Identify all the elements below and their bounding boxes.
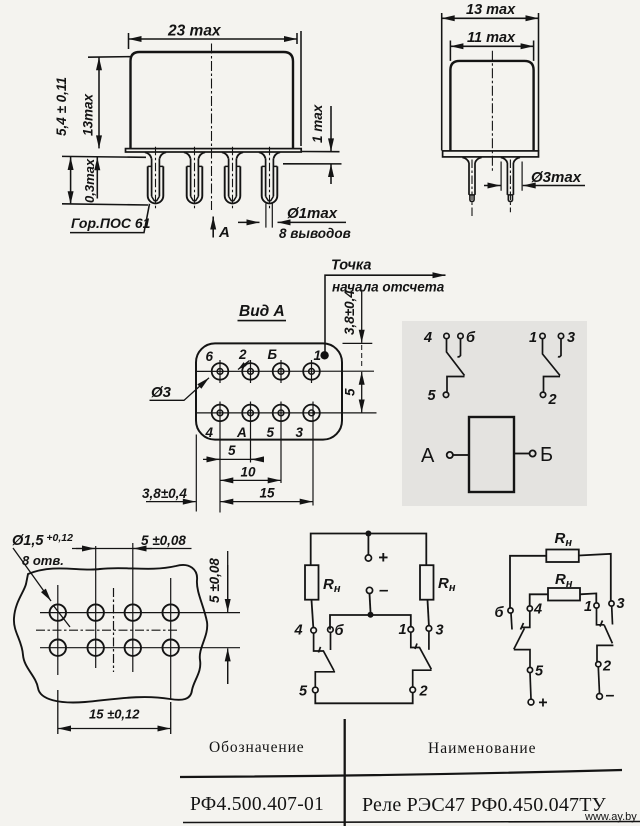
svg-text:23 max: 23 max — [167, 23, 222, 40]
switch S3 blade — [514, 611, 530, 667]
dim 5 cols pcb line — [72, 548, 192, 550]
hole r2c2 — [88, 640, 104, 656]
svg-text:5: 5 — [267, 425, 275, 440]
switch S1 tick — [319, 647, 321, 653]
wire Rn3 right lead — [579, 554, 611, 601]
terminal plus R — [528, 699, 534, 705]
svg-text:Точка: Точка — [331, 258, 371, 274]
table vertical divider — [344, 719, 346, 826]
leader phi1,5 tail — [53, 605, 70, 627]
svg-text:15: 15 — [260, 486, 276, 501]
svg-text:А: А — [236, 425, 247, 440]
switch S3 stub b — [511, 613, 512, 629]
terminal minus R — [597, 694, 603, 700]
svg-text:2: 2 — [548, 392, 557, 408]
leader tochka line — [325, 275, 446, 352]
dim 5 rows pcb upper arrow — [227, 565, 229, 612]
hole r1c4 — [163, 604, 179, 620]
coil terminal B — [530, 450, 536, 456]
svg-text:Б: Б — [540, 444, 553, 466]
row line top holes — [40, 612, 240, 614]
board torn outline — [14, 565, 207, 703]
leader Gor.POS 61 — [70, 204, 150, 233]
coil terminal A — [447, 452, 453, 458]
column line h2 — [95, 546, 97, 668]
contact K2: fixed stub 3 — [558, 339, 561, 357]
contact K1: pin 5 terminal — [443, 392, 448, 397]
svg-text:Наименование: Наименование — [428, 740, 537, 757]
svg-text:0,3max: 0,3max — [82, 158, 97, 203]
hole r1c2 — [88, 604, 104, 620]
contact K1: pin b terminal — [458, 333, 463, 338]
switch S4 tick — [600, 621, 603, 627]
row line bottom — [197, 412, 377, 414]
switch S2 tick — [415, 644, 417, 650]
dim 15 pcb — [58, 728, 171, 730]
dim 3.8 top arrow — [361, 290, 363, 343]
pin 1 terminal — [408, 627, 414, 633]
pin 4 hole — [212, 405, 229, 422]
column line h3 — [132, 543, 134, 672]
dim 23max line — [129, 38, 298, 40]
leg 2 front — [184, 147, 205, 209]
wire R2 to pin3 — [428, 600, 429, 626]
svg-text:–: – — [379, 580, 389, 599]
contact K2: pin 3 terminal — [558, 333, 563, 338]
svg-text:1 max: 1 max — [310, 104, 325, 143]
row line top — [197, 370, 375, 372]
switch S1 blade — [314, 633, 336, 687]
coil lead B — [514, 453, 529, 455]
svg-text:Реле РЭС47 РФ0.450.047ТУ: Реле РЭС47 РФ0.450.047ТУ — [362, 794, 607, 816]
dim 5.4 line — [70, 157, 72, 204]
pin column ext lines bottom row — [220, 402, 313, 513]
leg left side — [462, 157, 481, 217]
wire 5 to plus — [530, 673, 531, 699]
leg4 pin extension lines — [266, 204, 272, 228]
ext line body top left — [88, 56, 132, 59]
hole r1c3 — [125, 604, 141, 620]
contact K2: pin 2 terminal — [540, 392, 545, 397]
dim 15 line — [220, 501, 312, 503]
view arrow A — [212, 217, 214, 238]
svg-text:3,8±0,4: 3,8±0,4 — [342, 290, 357, 335]
svg-text:РФ4.500.407-01: РФ4.500.407-01 — [190, 794, 324, 815]
svg-text:5,4 ± 0,11: 5,4 ± 0,11 — [54, 77, 69, 136]
hole r2c3 — [125, 640, 141, 656]
ext lines 23max — [129, 31, 302, 146]
wire Rn4 left lead — [530, 594, 548, 606]
dim 13max line — [98, 57, 100, 148]
relay body side — [450, 61, 533, 151]
svg-text:2: 2 — [419, 684, 428, 700]
hole r2c4 — [163, 640, 179, 656]
pin 2 terminal R — [596, 662, 601, 667]
svg-text:6: 6 — [206, 349, 214, 364]
svg-text:5: 5 — [299, 684, 308, 700]
title underline — [238, 320, 287, 322]
dim 3.8 bottom line — [146, 501, 196, 503]
table bottom line — [183, 822, 640, 823]
pin b terminal — [328, 627, 334, 633]
switch S4 blade — [597, 608, 614, 661]
dim 0.3max line — [96, 157, 98, 198]
ext line leg tips left — [62, 204, 148, 205]
column line h1 — [57, 585, 59, 675]
dim 1max upper arrow — [330, 106, 332, 151]
svg-text:2: 2 — [238, 347, 247, 362]
svg-text:Ø3: Ø3 — [151, 384, 172, 401]
pin b terminal R — [508, 608, 513, 613]
dim 5 pcb left arrow — [76, 548, 95, 550]
pin 2 terminal — [410, 687, 416, 693]
svg-text:3: 3 — [436, 623, 444, 639]
svg-text:5: 5 — [228, 443, 236, 458]
svg-text:+: + — [538, 695, 547, 712]
dim 5 cols left arrow — [206, 458, 220, 460]
dim phi1 right segment — [278, 221, 347, 223]
dim 13max side — [442, 17, 539, 19]
svg-text:+: + — [378, 548, 388, 567]
svg-text:13max: 13max — [81, 93, 96, 136]
pin 4 terminal R — [527, 606, 532, 611]
switch S1 stub b — [330, 632, 332, 650]
wire top rail — [311, 534, 427, 566]
svg-text:5: 5 — [535, 664, 544, 680]
datum point dot — [320, 351, 328, 359]
pin 3 terminal R — [609, 601, 614, 606]
dim 10 line — [220, 479, 280, 481]
svg-text:5 ±0,08: 5 ±0,08 — [207, 558, 222, 603]
svg-text:А: А — [421, 445, 435, 467]
pin 1 hole — [303, 363, 320, 380]
leader phi3 — [150, 378, 210, 401]
wire R1 to pin4 — [312, 600, 314, 628]
ext line plate bottom right — [302, 151, 340, 153]
pin column ticks top row — [220, 360, 312, 383]
svg-text:б: б — [466, 330, 476, 346]
ext lines phi3 — [501, 162, 522, 191]
pin 6 hole — [212, 363, 229, 380]
ext lines 13max side — [442, 13, 539, 151]
svg-text:1: 1 — [314, 348, 322, 363]
wire plus stub — [367, 534, 369, 556]
junction top — [365, 531, 371, 537]
dim 5 pcb right arrow — [134, 548, 153, 550]
leg 4 front — [259, 147, 280, 209]
center axis dash-dot — [211, 44, 213, 211]
svg-text:5: 5 — [428, 388, 437, 404]
pin 5 terminal — [313, 687, 319, 693]
svg-text:Ø1max: Ø1max — [287, 205, 338, 222]
leader label2 arrow — [238, 361, 250, 370]
svg-text:б: б — [335, 623, 345, 639]
ext row lines right — [227, 551, 229, 684]
dim 5 cols right arrow — [251, 458, 264, 460]
row line bottom holes — [40, 647, 240, 649]
dim 5 rows — [361, 372, 363, 413]
svg-text:www.ay.by: www.ay.by — [584, 811, 637, 823]
svg-text:1: 1 — [529, 330, 537, 346]
ext line collar bottom left — [62, 155, 146, 158]
svg-text:5 ±0,08: 5 ±0,08 — [141, 533, 186, 548]
switch S2 stub 3 — [428, 631, 430, 650]
svg-text:4: 4 — [533, 602, 542, 618]
ext sides to 11max — [450, 41, 533, 61]
svg-text:б: б — [495, 605, 505, 621]
leg 3 front — [222, 147, 243, 209]
pin 2 hole — [242, 363, 259, 380]
relay body front — [131, 52, 294, 149]
wire mid rail — [330, 615, 411, 630]
resistor Rn3 — [546, 550, 579, 563]
resistor Rn2 — [420, 565, 434, 600]
center axis vertical dash-dot — [113, 588, 115, 672]
svg-text:Вид А: Вид А — [239, 303, 285, 320]
header underline — [180, 770, 622, 777]
hole r2c1 — [50, 640, 66, 656]
dim 1max lower arrow — [330, 164, 332, 184]
switch S2 blade — [411, 632, 432, 687]
contact K2: blade — [543, 339, 561, 392]
coil lead A — [453, 454, 469, 456]
junction mid — [368, 612, 374, 618]
column line h4 — [170, 578, 172, 700]
svg-text:3: 3 — [567, 330, 575, 346]
svg-text:1: 1 — [399, 622, 407, 638]
dim phi3 left arrow — [484, 185, 501, 187]
terminal minus — [366, 587, 372, 593]
switch S4 stub 3 — [611, 606, 614, 624]
contact K1: fixed stub b — [458, 339, 461, 357]
svg-text:А: А — [218, 224, 230, 241]
leg right side — [501, 157, 520, 212]
svg-text:8 отв.: 8 отв. — [22, 553, 64, 568]
ext line standoff right — [283, 163, 342, 165]
pin 4 terminal — [311, 628, 317, 634]
svg-text:11 max: 11 max — [467, 30, 516, 46]
svg-text:Обозначение: Обозначение — [209, 739, 305, 756]
dim phi3 right arrow — [523, 185, 585, 187]
leg 1 front — [145, 147, 166, 209]
svg-text:Гор.ПОС 61: Гор.ПОС 61 — [71, 215, 151, 231]
svg-text:2: 2 — [602, 659, 611, 675]
panel background — [402, 321, 587, 506]
switch S3 tick — [521, 623, 524, 630]
base plate side — [443, 151, 539, 157]
leader phi1,5 arrow — [13, 548, 51, 601]
svg-text:–: – — [606, 687, 615, 704]
ext package top right — [343, 342, 373, 344]
ext lines 15 pcb — [58, 690, 171, 734]
dim 11max side — [450, 45, 533, 47]
pin 5 hole — [273, 405, 290, 422]
pin 5 terminal R — [527, 667, 532, 672]
pin B hole — [273, 363, 290, 380]
centerline leg left — [471, 160, 473, 217]
package outline view A — [196, 343, 342, 439]
pin 3 hole — [303, 405, 320, 422]
resistor Rn4 — [548, 588, 580, 601]
dim 5 cols line — [203, 458, 264, 460]
dim 3.8 continuation — [361, 345, 363, 368]
contact K2: pin 1 terminal — [540, 333, 545, 338]
contact K1: pin 4 terminal — [444, 333, 449, 338]
svg-text:Б: Б — [268, 347, 278, 362]
svg-text:3: 3 — [296, 425, 304, 440]
wire minus to junction — [370, 594, 371, 612]
centerline leg right — [509, 160, 511, 213]
svg-text:8 выводов: 8 выводов — [279, 226, 351, 241]
wire Rn4 right lead — [580, 593, 596, 602]
wire Rn3 left lead — [510, 556, 546, 608]
svg-text:3: 3 — [617, 596, 625, 612]
package left ext line — [195, 435, 197, 512]
svg-text:Ø3max: Ø3max — [531, 169, 582, 186]
dim phi1 left segment — [238, 221, 260, 223]
svg-text:4: 4 — [205, 425, 214, 440]
svg-text:10: 10 — [241, 465, 257, 480]
svg-text:4: 4 — [294, 623, 303, 639]
wire 2 to minus — [598, 667, 599, 694]
svg-text:13 max: 13 max — [466, 2, 516, 18]
svg-text:15 ±0,12: 15 ±0,12 — [89, 707, 140, 722]
svg-text:4: 4 — [423, 330, 432, 346]
svg-text:5: 5 — [343, 388, 358, 396]
contact K1: blade — [447, 339, 465, 392]
svg-text:3,8±0,4: 3,8±0,4 — [142, 486, 187, 501]
pin 3 terminal — [426, 626, 432, 632]
center axis horizontal dash-dot — [36, 629, 178, 631]
pin 1 terminal R — [594, 603, 599, 608]
base plate front — [126, 149, 302, 152]
dim 5 rows pcb lower arrow — [227, 648, 229, 684]
wire bottom rail — [315, 693, 412, 704]
resistor Rn1 — [305, 565, 319, 600]
terminal plus — [365, 555, 371, 561]
center axis dash-dot side — [491, 51, 493, 171]
pin A hole — [242, 405, 259, 422]
svg-text:1: 1 — [584, 599, 592, 615]
coil rectangle — [469, 417, 514, 492]
hole r1c1 — [50, 604, 66, 620]
